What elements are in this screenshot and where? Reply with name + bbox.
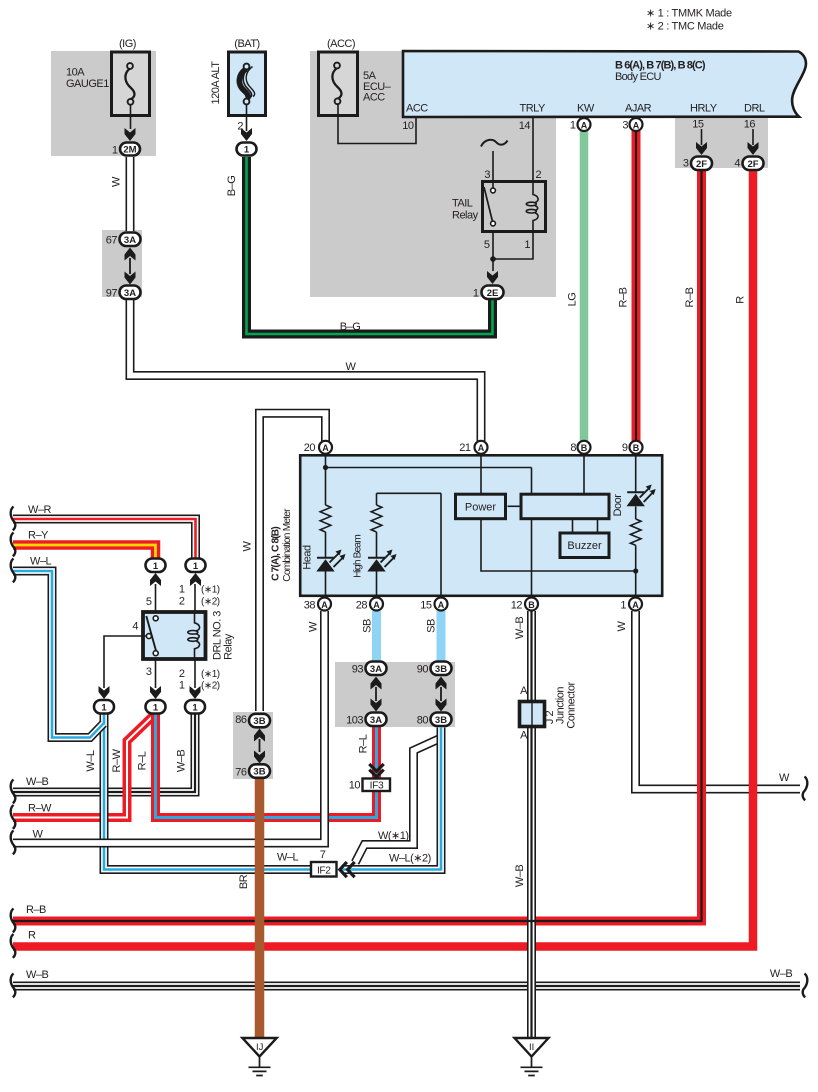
svg-text:W: W xyxy=(242,540,254,551)
connector 103 3A xyxy=(366,713,387,727)
svg-text:W–L: W–L xyxy=(30,556,52,568)
svg-text:93: 93 xyxy=(352,664,364,676)
wire W-B: meter pin 12 to J2 xyxy=(527,611,536,701)
wire R-L: DRL relay connector down, across to IF3 and up to 103 3A xyxy=(156,712,377,818)
svg-text:A: A xyxy=(373,600,380,610)
svg-text:3: 3 xyxy=(484,169,490,181)
svg-text:IJ: IJ xyxy=(256,1042,264,1053)
svg-text:W–B: W–B xyxy=(26,776,49,788)
svg-text:B–G: B–G xyxy=(340,321,361,333)
meter internal: Door LED xyxy=(627,455,656,519)
gray block: 93/103/90/80 connector region xyxy=(335,662,455,727)
brace R-B row xyxy=(11,909,16,933)
svg-text:1: 1 xyxy=(101,702,107,713)
meter pin circle 20(A) xyxy=(319,441,332,454)
wire: TAIL relay pin 1 to junction xyxy=(494,232,533,259)
svg-text:76: 76 xyxy=(235,767,247,779)
double arrow between 86 and 76 xyxy=(254,729,265,764)
connector 1 (BAT) xyxy=(237,143,257,156)
svg-text:W: W xyxy=(779,772,790,784)
svg-text:A: A xyxy=(632,600,639,610)
wire W-B: J2 down to ground II xyxy=(527,727,536,1038)
connector 86 3B xyxy=(249,714,270,728)
svg-text:SB: SB xyxy=(362,619,374,633)
connector 80 3B xyxy=(431,713,452,727)
brace W-B bottom row xyxy=(11,974,16,998)
svg-text:Door: Door xyxy=(612,494,624,517)
svg-text:W: W xyxy=(111,176,123,187)
svg-text:7: 7 xyxy=(320,849,326,861)
svg-text:5: 5 xyxy=(484,239,490,251)
svg-text:1: 1 xyxy=(179,680,185,692)
meter internal: Head resistor xyxy=(320,505,331,532)
wire W: 97 3A down and across to meter pin 21 xyxy=(130,299,481,441)
DRL relay: pin stems xyxy=(104,584,195,688)
meter internal: Head LED xyxy=(316,532,345,597)
svg-text:3A: 3A xyxy=(124,235,136,246)
svg-text:R–W: R–W xyxy=(111,748,123,772)
svg-text:3: 3 xyxy=(622,120,628,132)
svg-text:120A ALT: 120A ALT xyxy=(210,61,222,105)
svg-text:R: R xyxy=(735,296,747,304)
svg-text:12: 12 xyxy=(511,600,523,612)
svg-text:W–L(∗2): W–L(∗2) xyxy=(389,853,431,865)
double arrow between 93 and 103 xyxy=(371,677,382,712)
TAIL relay coil xyxy=(526,182,538,232)
brace right W row xyxy=(803,777,808,801)
wire: ECU DRL pin 16 lead xyxy=(752,129,754,145)
svg-text:(ACC): (ACC) xyxy=(327,38,355,50)
svg-text:3B: 3B xyxy=(435,715,447,726)
svg-text:Body ECU: Body ECU xyxy=(615,71,662,83)
TAIL relay tilde stub xyxy=(481,140,508,147)
gray block: 67/97 3A connector region xyxy=(102,230,142,297)
meter internal: High Beam top link xyxy=(377,493,442,597)
svg-text:W(∗1): W(∗1) xyxy=(378,830,409,842)
fuse element BAT (thick) xyxy=(239,64,254,105)
wire SB: meter pin 15 to 90 3B xyxy=(437,611,446,662)
ground IJ xyxy=(242,1038,276,1076)
svg-text:15: 15 xyxy=(692,119,704,131)
svg-text:W–B: W–B xyxy=(26,969,49,981)
wire LG: ECU KW to meter pin 8 xyxy=(580,131,589,441)
wire: BAT fuse lead to connector 1 xyxy=(246,104,248,131)
J2 junction connector box xyxy=(520,702,545,727)
svg-text:3B: 3B xyxy=(253,767,265,778)
svg-text:W–B: W–B xyxy=(514,617,526,640)
brace W-R xyxy=(11,507,16,531)
svg-text:B: B xyxy=(633,443,640,453)
svg-text:3A: 3A xyxy=(124,288,136,299)
wire: IG fuse lead to 2M xyxy=(130,104,132,129)
svg-text:A: A xyxy=(520,730,528,742)
svg-text:R–B: R–B xyxy=(684,287,696,307)
meter internal: pin20 node and bus xyxy=(326,455,532,597)
svg-text:IF3: IF3 xyxy=(370,781,384,792)
meter pin circle 9(B) xyxy=(630,441,643,454)
gray block: ACC / TAIL relay region xyxy=(310,51,556,297)
brace R-W row xyxy=(11,805,16,829)
svg-text:10: 10 xyxy=(402,120,414,132)
svg-text:21: 21 xyxy=(459,442,471,454)
svg-text:80: 80 xyxy=(417,715,429,727)
svg-text:LG: LG xyxy=(567,293,579,307)
svg-text:28: 28 xyxy=(356,600,368,612)
svg-text:10A: 10A xyxy=(66,67,85,79)
pin circle AJAR 3(A) xyxy=(630,118,643,131)
wire W: meter pin 1 down and right to brace xyxy=(636,611,801,789)
svg-text:Connector: Connector xyxy=(566,682,578,729)
svg-text:II: II xyxy=(529,1042,534,1053)
svg-text:2M: 2M xyxy=(123,145,136,156)
connector 67 3A xyxy=(120,233,141,247)
svg-text:B–G: B–G xyxy=(226,176,238,197)
svg-text:Head: Head xyxy=(302,545,314,570)
svg-text:20: 20 xyxy=(304,442,316,454)
svg-text:R–Y: R–Y xyxy=(28,530,49,542)
wire: TAIL relay pin 5 to junction xyxy=(492,232,494,271)
svg-text:2E: 2E xyxy=(487,288,499,299)
gray block: HRLY/DRL 2F connector region xyxy=(675,117,768,168)
svg-text:1: 1 xyxy=(570,120,576,132)
double arrow between 67 and 97 xyxy=(125,248,136,285)
meter internal: control box (unlabeled) xyxy=(521,494,609,519)
svg-text:97: 97 xyxy=(106,288,118,300)
brace W-L xyxy=(11,559,16,583)
DRL relay: switch xyxy=(146,616,158,656)
TAIL Relay box xyxy=(483,182,546,232)
meter pin circle 15(A) xyxy=(435,598,448,611)
svg-text:R–B: R–B xyxy=(26,904,46,916)
svg-text:Relay: Relay xyxy=(452,210,479,222)
svg-text:16: 16 xyxy=(744,119,756,131)
svg-text:W: W xyxy=(346,361,357,373)
svg-text:Power: Power xyxy=(465,501,497,513)
svg-text:10: 10 xyxy=(349,780,361,792)
connector 2E xyxy=(482,286,504,300)
svg-text:2: 2 xyxy=(179,596,185,608)
wire W: meter pin 38 down to W row and left brace xyxy=(13,611,325,843)
wire R-W: left brace to DRL relay connector xyxy=(13,714,156,818)
svg-text:38: 38 xyxy=(304,600,316,612)
svg-text:1: 1 xyxy=(179,584,185,596)
svg-text:5: 5 xyxy=(146,596,152,608)
connector 97 3A xyxy=(120,286,141,300)
DRL NO.3 Relay box xyxy=(143,612,206,659)
svg-text:R–L: R–L xyxy=(358,734,370,753)
wire R-B: ECU AJAR to meter pin 9 xyxy=(632,131,641,441)
fuse box (IG) 10A GAUGE1 xyxy=(112,52,150,116)
wire W-B: left brace row up to DRL relay connector xyxy=(13,713,195,792)
svg-text:90: 90 xyxy=(417,664,429,676)
svg-text:3B: 3B xyxy=(435,664,447,675)
svg-text:R–B: R–B xyxy=(618,287,630,307)
meter internal: High Beam resistor xyxy=(371,505,382,532)
DRL relay: coil xyxy=(188,613,200,660)
svg-text:1: 1 xyxy=(192,702,198,713)
svg-text:86: 86 xyxy=(235,714,247,726)
connector 2F (DRL) xyxy=(743,157,764,171)
meter internal: Power box xyxy=(456,494,506,519)
svg-text:R: R xyxy=(28,930,36,942)
svg-text:3: 3 xyxy=(146,666,152,678)
svg-text:W: W xyxy=(33,829,44,841)
svg-text:4: 4 xyxy=(734,158,740,170)
wire R-B: HRLY 2F down and across to left brace xyxy=(13,169,702,921)
DRL relay: top connector ovals 1 xyxy=(146,559,166,573)
wire W-L: left brace joining connector wire xyxy=(13,571,104,738)
DRL relay: bottom connector arrows xyxy=(99,686,110,699)
wire W(*1): 80 3B down to IF2 chevrons xyxy=(355,728,441,863)
wire W: 2M to 67 3A xyxy=(126,157,135,231)
svg-text:GAUGE1: GAUGE1 xyxy=(66,78,109,90)
meter internal: pin21 to Power to door bus xyxy=(481,455,636,571)
connector 2M xyxy=(120,143,140,156)
wire SB: meter pin 28 to 93 3A xyxy=(372,611,381,662)
fuse box (ACC) 5A ECU-ACC xyxy=(319,52,358,116)
meter pin circle 21(A) xyxy=(475,441,488,454)
svg-text:1: 1 xyxy=(193,561,199,572)
svg-text:A: A xyxy=(321,600,328,610)
fuse box (BAT) 120A ALT xyxy=(229,52,266,116)
svg-text:BR: BR xyxy=(238,874,250,889)
gray block: 10A GAUGE1 fuse region xyxy=(51,51,156,156)
wire: tilde stub to TAIL relay pin 3 xyxy=(492,151,494,188)
svg-text:ACC: ACC xyxy=(406,103,428,115)
TAIL relay switch xyxy=(484,187,495,226)
wire W-L: connector 1 down to IF2 xyxy=(104,713,311,870)
svg-text:TAIL: TAIL xyxy=(452,198,473,210)
svg-text:∗ 2 : TMC Made: ∗ 2 : TMC Made xyxy=(646,21,724,33)
DRL relay: top connector arrows xyxy=(150,573,161,586)
svg-text:A: A xyxy=(322,443,329,453)
svg-text:A: A xyxy=(520,685,528,697)
pin circle KW 1(A) xyxy=(578,118,591,131)
svg-text:(∗1): (∗1) xyxy=(201,585,220,596)
svg-text:3B: 3B xyxy=(253,716,265,727)
svg-text:KW: KW xyxy=(577,103,595,115)
meter internal: High Beam LED xyxy=(367,532,396,597)
wire W-R: left brace to DRL relay connector xyxy=(13,519,196,560)
svg-text:3: 3 xyxy=(683,158,689,170)
svg-text:(∗2): (∗2) xyxy=(201,681,220,692)
meter pin circle 12(B) xyxy=(525,598,538,611)
svg-text:3A: 3A xyxy=(370,664,382,675)
wire W: 86 3B up and across to meter pin 20 xyxy=(260,413,326,711)
svg-text:W–L: W–L xyxy=(277,852,299,864)
IF2 box xyxy=(311,862,337,877)
meter pin circle 1(A) xyxy=(629,598,642,611)
svg-text:2: 2 xyxy=(179,668,185,680)
wire: ECU HRLY pin 15 lead xyxy=(701,129,703,145)
connector 90 3B xyxy=(431,662,452,676)
brace W-B row xyxy=(11,780,16,804)
svg-text:14: 14 xyxy=(519,120,531,132)
svg-text:9: 9 xyxy=(622,442,628,454)
svg-text:B: B xyxy=(581,443,588,453)
svg-text:W: W xyxy=(308,621,320,632)
ground II xyxy=(515,1038,549,1076)
svg-text:3A: 3A xyxy=(370,715,382,726)
junction dot TAIL relay output xyxy=(490,256,496,262)
svg-text:2F: 2F xyxy=(696,159,707,170)
brace W row xyxy=(11,831,16,855)
arrow into 2M xyxy=(125,128,136,141)
svg-text:8: 8 xyxy=(570,442,576,454)
connector 93 3A xyxy=(366,662,387,676)
svg-text:103: 103 xyxy=(346,715,363,727)
svg-text:2F: 2F xyxy=(747,159,758,170)
svg-text:A: A xyxy=(438,600,445,610)
IF3 box xyxy=(363,779,391,792)
svg-text:HRLY: HRLY xyxy=(690,103,718,115)
wire W-B: bottom long row xyxy=(13,982,800,991)
svg-text:2: 2 xyxy=(237,121,243,133)
fuse element ACC xyxy=(332,63,341,105)
svg-text:A: A xyxy=(633,120,640,130)
arrow into 2F (DRL) xyxy=(748,142,759,155)
svg-text:W: W xyxy=(616,620,628,631)
brace R-Y xyxy=(11,533,16,557)
wire B-G: BAT connector down, across to TAIL relay 2E xyxy=(247,157,493,334)
svg-text:(BAT): (BAT) xyxy=(234,38,259,50)
svg-text:W–L: W–L xyxy=(85,750,97,772)
connector 2F (HRLY) xyxy=(691,157,712,171)
IF2 chevrons xyxy=(340,862,355,877)
brace right W-B bottom row xyxy=(803,974,808,998)
svg-text:1: 1 xyxy=(153,561,159,572)
wire R-Y: left brace to DRL relay connector xyxy=(13,545,156,560)
svg-text:AJAR: AJAR xyxy=(625,103,652,115)
meter internal: Door resistor xyxy=(630,519,641,545)
svg-text:2: 2 xyxy=(536,169,542,181)
meter pin circle 8(B) xyxy=(578,441,591,454)
svg-text:1: 1 xyxy=(473,288,479,300)
wire R-B stripe: black tracer over crossing xyxy=(13,169,702,921)
wire BR: 76 3B down to ground IJ xyxy=(255,777,265,1039)
svg-text:67: 67 xyxy=(106,235,118,247)
svg-text:ACC: ACC xyxy=(363,92,385,104)
svg-text:A: A xyxy=(581,120,588,130)
svg-text:B: B xyxy=(528,600,535,610)
svg-text:C 7(A), C 8(B): C 7(A), C 8(B) xyxy=(271,527,282,581)
svg-text:IF2: IF2 xyxy=(317,865,331,876)
svg-text:(IG): (IG) xyxy=(119,38,136,50)
svg-text:W–B: W–B xyxy=(770,968,793,980)
svg-text:(∗1): (∗1) xyxy=(201,669,220,680)
svg-text:Combination Meter: Combination Meter xyxy=(282,508,293,582)
svg-text:W–B: W–B xyxy=(514,865,526,888)
svg-text:SB: SB xyxy=(426,619,438,633)
fuse element IG xyxy=(125,63,134,105)
svg-text:W–B: W–B xyxy=(176,750,188,773)
arrow into 2F (HRLY) xyxy=(696,142,707,155)
meter internal: Buzzer box xyxy=(560,533,609,558)
svg-text:DRL: DRL xyxy=(744,103,765,115)
svg-text:1: 1 xyxy=(153,702,159,713)
svg-text:(∗2): (∗2) xyxy=(201,597,220,608)
arrow into BAT connector 1 xyxy=(241,128,252,141)
meter pin circle 28(A) xyxy=(370,598,383,611)
svg-text:A: A xyxy=(478,443,485,453)
arrow into 2E xyxy=(487,271,498,284)
DRL relay: bottom connector ovals 1 xyxy=(94,700,114,714)
svg-text:1: 1 xyxy=(112,145,118,157)
svg-text:Buzzer: Buzzer xyxy=(567,540,602,552)
wire W-L(*2): 80 3B straight down to IF2 chevrons xyxy=(342,728,441,870)
wire R: DRL 2F down and across to left brace xyxy=(13,169,753,947)
meter internal: door branch to pin 1 xyxy=(635,545,637,597)
svg-text:1: 1 xyxy=(244,145,250,156)
double arrow between 90 and 80 xyxy=(436,677,447,712)
svg-text:R–L: R–L xyxy=(137,751,149,770)
connector 76 3B xyxy=(249,764,270,778)
Combination Meter box C7(A) C8(B) xyxy=(300,455,662,596)
svg-text:1: 1 xyxy=(620,600,626,612)
svg-text:B 6(A), B 7(B), B 8(C): B 6(A), B 7(B), B 8(C) xyxy=(615,60,706,72)
gray block: 86/76 3B connector region xyxy=(233,712,273,779)
Body ECU blue box B6(A) B7(B) B8(C) with torn right edge xyxy=(403,51,806,117)
brace R row xyxy=(11,934,16,958)
wire: ECU TRLY pin 14 to TAIL relay pin 2 xyxy=(532,117,534,181)
IF3 chevrons xyxy=(369,764,383,777)
svg-text:4: 4 xyxy=(132,621,138,633)
svg-text:R–W: R–W xyxy=(28,803,52,815)
svg-text:High Beam: High Beam xyxy=(353,535,364,578)
wire: ACC fuse to ECU pin 10 xyxy=(338,103,416,144)
svg-text:1: 1 xyxy=(524,239,530,251)
meter pin circle 38(A) xyxy=(318,598,331,611)
svg-text:∗ 1 : TMMK Made: ∗ 1 : TMMK Made xyxy=(646,8,732,20)
svg-text:TRLY: TRLY xyxy=(520,103,546,115)
svg-text:15: 15 xyxy=(420,600,432,612)
svg-text:W–R: W–R xyxy=(28,504,52,516)
svg-text:Relay: Relay xyxy=(223,633,235,660)
